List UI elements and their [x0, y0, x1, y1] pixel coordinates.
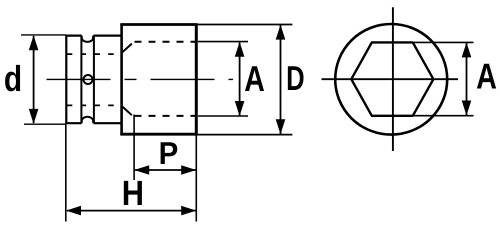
- wire body bottom extension: [198, 134, 293, 136]
- svg-text:d: d: [4, 58, 22, 99]
- node H arrow right: [181, 206, 196, 216]
- node P arrow left: [134, 165, 149, 175]
- node drive left face: [65, 35, 67, 124]
- wire d extension bottom: [24, 123, 66, 125]
- wire square hole hidden top: [67, 53, 121, 55]
- svg-text:P: P: [159, 135, 179, 171]
- node top groove notch: [82, 36, 94, 42]
- node D arrow down: [276, 119, 286, 134]
- wire body top extension: [198, 24, 293, 26]
- node A2 arrow up: [462, 42, 472, 57]
- node D arrow up: [276, 25, 286, 40]
- wire P extension left: [133, 115, 135, 181]
- node A2 arrow down: [462, 101, 472, 116]
- svg-text:A: A: [244, 58, 265, 99]
- node A arrow down: [235, 101, 245, 116]
- node d arrow up: [29, 35, 39, 50]
- wire d extension top: [21, 34, 66, 36]
- wire drive bottom edge: [66, 122, 121, 124]
- wire centerline left view: [47, 78, 234, 80]
- wire groove edge left: [80, 36, 82, 124]
- node hexagon front view: [351, 42, 433, 115]
- wire P dimension line: [135, 169, 196, 171]
- svg-text:A: A: [476, 56, 497, 97]
- wire A extension top: [198, 41, 248, 43]
- wire groove edge right: [93, 36, 95, 124]
- node body left face: [120, 24, 123, 135]
- wire A extension bottom: [198, 115, 248, 117]
- node d arrow down: [29, 109, 39, 124]
- node H arrow left: [66, 206, 81, 216]
- wire hex bore hidden top: [135, 41, 197, 43]
- node pin hole: [84, 75, 93, 84]
- wire right face extension down: [195, 135, 197, 222]
- wire body top edge: [120, 23, 197, 26]
- wire flare diagonal bottom: [122, 107, 132, 116]
- wire A2 extension bottom: [414, 115, 474, 117]
- wire H dimension line: [67, 210, 196, 212]
- wire A2 extension top: [414, 41, 474, 43]
- wire square hole hidden bottom: [67, 104, 121, 106]
- wire A2 dimension line: [466, 43, 468, 115]
- wire D dimension line: [280, 25, 282, 134]
- node P arrow right: [181, 165, 196, 175]
- node circle front view: [335, 24, 447, 135]
- wire H extension left: [65, 124, 67, 222]
- wire drive top edge: [66, 34, 121, 36]
- wire flare diagonal top: [122, 44, 132, 53]
- node bottom groove notch: [82, 117, 94, 123]
- wire d dimension line: [33, 36, 35, 123]
- svg-text:H: H: [122, 174, 144, 213]
- node A arrow up: [235, 42, 245, 57]
- wire horizontal centerline front view: [322, 78, 459, 80]
- wire vertical centerline front view: [392, 7, 394, 151]
- wire A dimension line: [239, 43, 241, 116]
- wire body bottom edge: [120, 133, 197, 136]
- svg-text:D: D: [286, 60, 304, 98]
- wire hex bore hidden bottom: [135, 115, 197, 117]
- node body right face: [195, 24, 198, 135]
